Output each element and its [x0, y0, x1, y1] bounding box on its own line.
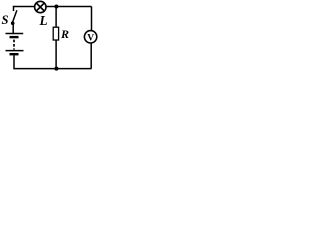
battery cell 2 positive plate — [6, 50, 24, 52]
wire node to resistor — [55, 7, 57, 28]
battery dashed link (more cells) — [13, 40, 15, 50]
battery cell 1 positive plate — [6, 33, 24, 35]
lamp L cross — [36, 3, 44, 11]
svg-text:V: V — [87, 33, 94, 43]
wire switch to battery — [12, 25, 14, 34]
wire resistor to bottom node — [55, 40, 57, 68]
switch S terminal dot — [11, 21, 15, 25]
wire battery to bottom-left corner and bottom wire — [14, 55, 92, 68]
svg-text:S: S — [2, 13, 9, 27]
battery cell 2 negative plate — [10, 53, 19, 55]
node top junction dot — [54, 5, 58, 9]
wire top-left (switch fixed contact to lamp) — [14, 7, 35, 12]
resistor R body — [53, 27, 58, 40]
lamp L circle — [35, 1, 46, 12]
voltmeter V circle — [84, 31, 96, 43]
battery cell 1 negative plate — [10, 36, 19, 38]
svg-text:R: R — [60, 27, 69, 41]
svg-text:L: L — [39, 13, 48, 28]
wire voltmeter to bottom-right corner — [90, 43, 92, 69]
wire lamp to top-right corner — [46, 6, 92, 8]
switch S blade — [12, 10, 17, 22]
node bottom junction dot — [54, 67, 58, 71]
wire top-right corner to voltmeter — [91, 7, 93, 31]
